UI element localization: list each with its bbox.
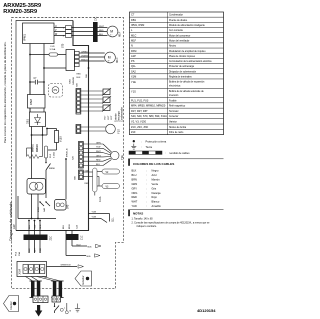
svg-text:RED: RED — [96, 160, 101, 162]
svg-text:MRM20: MRM20 — [37, 143, 39, 152]
svg-text:Z2C: Z2C — [50, 236, 53, 241]
power supply transformer — [27, 179, 46, 195]
svg-text:M1C: M1C — [115, 57, 119, 63]
svg-text:SA2: SA2 — [131, 69, 136, 73]
connector S20 — [73, 142, 84, 169]
wires X1M to indoor cable — [26, 277, 61, 282]
svg-text:electrónica: electrónica — [169, 85, 181, 88]
svg-text:Z3C: Z3C — [96, 16, 98, 21]
connector S70 pins — [62, 26, 72, 48]
wires leaving PCB bottom — [28, 220, 41, 253]
svg-text:BLK: BLK — [132, 169, 137, 173]
switch MR30 — [45, 158, 55, 179]
svg-text:Disipador de sobretensión: Disipador de sobretensión — [169, 70, 197, 73]
svg-text:Regleta de terminales: Regleta de terminales — [169, 76, 192, 79]
svg-text:BLK: BLK — [99, 34, 104, 36]
svg-text:V2, V3, V150: V2, V3, V150 — [131, 119, 147, 123]
svg-text:A1P: A1P — [12, 224, 16, 229]
svg-text:1. Tamaño: 140 x 80: 1. Tamaño: 140 x 80 — [132, 217, 154, 220]
svg-text:Y1S: Y1S — [117, 129, 121, 134]
supply switch — [54, 303, 72, 314]
legend table row lines — [130, 17, 224, 129]
thermistor R1T — [102, 88, 111, 120]
compressor wire labels — [81, 51, 89, 61]
pin labels U V W — [55, 26, 58, 36]
wire fan phase 1 — [72, 27, 108, 29]
svg-text:3.15A: 3.15A — [53, 152, 56, 158]
svg-text:Condensador: Condensador — [169, 14, 183, 17]
svg-text:M1F: M1F — [131, 38, 137, 42]
svg-text:WHT: WHT — [132, 200, 138, 204]
symbol key: earth — [131, 144, 152, 150]
junction on P leg — [29, 54, 31, 56]
svg-text:Filtro de ruido: Filtro de ruido — [169, 131, 184, 134]
wire PAM to DB1 — [29, 108, 31, 112]
svg-text:Negro: Negro — [152, 169, 160, 173]
svg-text:2. Consulte las especificacio: 2. Consulte las especificaciones de comp… — [132, 221, 211, 224]
wire fan phase 2 — [72, 31, 108, 33]
svg-text:C7: C7 — [131, 13, 135, 17]
connector S40 — [55, 200, 70, 211]
svg-text:GRN: GRN — [96, 142, 101, 144]
svg-text:Conector: Conector — [169, 115, 179, 118]
wire IPM1 P leg — [29, 44, 31, 113]
thermistor connector S90 — [76, 82, 81, 114]
resistor R30 zigzag — [27, 135, 43, 159]
wire IPM1 N leg — [43, 44, 45, 95]
fan motor M1F — [107, 26, 122, 37]
wire from N leg junction to relay box — [43, 67, 45, 69]
svg-text:Termistor: Termistor — [169, 110, 179, 113]
wires to Y1S — [81, 126, 106, 128]
svg-text:RED: RED — [77, 74, 82, 76]
wire U to fan connector — [54, 27, 66, 29]
svg-text:BLU: BLU — [63, 224, 65, 229]
svg-text:WHT: WHT — [96, 151, 101, 153]
junction dots below DB1 — [31, 134, 33, 136]
wire tag capsule vertical — [93, 168, 97, 192]
svg-text:R1T: R1T — [105, 115, 107, 120]
legend table frame — [130, 12, 224, 135]
svg-text:IPM1, IPM2: IPM1, IPM2 — [131, 23, 145, 27]
svg-text:W/BLK: W/BLK — [81, 59, 88, 61]
svg-text:M1F: M1F — [118, 31, 122, 37]
svg-text:Núcleo de ferrita: Núcleo de ferrita — [169, 126, 187, 129]
svg-text:Y1S: Y1S — [131, 89, 136, 93]
wire V150 down — [56, 143, 58, 151]
svg-text:MR30: MR30 — [49, 168, 56, 170]
svg-text:GRY: GRY — [132, 186, 138, 190]
svg-text:BLK: BLK — [77, 77, 82, 79]
svg-text:RED: RED — [99, 30, 104, 32]
svg-text:Placa de circuito impreso: Placa de circuito impreso — [169, 55, 196, 58]
wire W to fan connector — [54, 35, 66, 37]
svg-text:ORG: ORG — [132, 191, 138, 195]
Interior symbol — [4, 296, 19, 312]
wire fuse to compressor connector — [58, 54, 66, 56]
wire rails to PAM — [29, 82, 31, 95]
svg-text:PS: PS — [131, 59, 135, 63]
svg-text:YLW: YLW — [85, 170, 89, 172]
svg-text:V150: V150 — [59, 136, 62, 142]
wires S20 to Y1E — [83, 144, 111, 166]
svg-text:M1C: M1C — [131, 33, 137, 37]
svg-text:YLW: YLW — [132, 204, 138, 208]
notes section — [128, 210, 223, 228]
varistor V150 — [55, 129, 63, 143]
legend table texts — [131, 13, 212, 134]
svg-text:S40: S40 — [67, 204, 70, 209]
svg-text:DB1: DB1 — [26, 119, 29, 124]
svg-text:X2A: X2A — [76, 224, 79, 229]
wire V to fan connector — [54, 31, 66, 33]
compressor motor M1C — [105, 52, 120, 63]
svg-text:Amarillo: Amarillo — [152, 204, 162, 208]
svg-text:Marrón: Marrón — [152, 177, 161, 181]
svg-text:DB1: DB1 — [131, 18, 137, 22]
connector for Y1S — [76, 125, 81, 134]
thermistor sensor dashed box with PS — [49, 84, 63, 98]
svg-text:MRM10: MRM10 — [33, 143, 35, 152]
fuse rating label — [16, 251, 21, 256]
relay contact MR4 — [38, 201, 50, 212]
svg-text:Relé magnético: Relé magnético — [169, 105, 186, 108]
svg-text:BRN: BRN — [132, 177, 138, 181]
svg-text:Interior: Interior — [9, 301, 13, 309]
wire DB1 left output — [31, 127, 33, 179]
svg-text:Rojo: Rojo — [152, 195, 158, 199]
arrow wire 1 — [72, 244, 101, 248]
terminal block X1M — [17, 262, 47, 277]
svg-text:Azul: Azul — [152, 173, 157, 177]
svg-text:M: M — [110, 29, 113, 33]
svg-text:RED: RED — [40, 247, 42, 252]
svg-text:Neutro: Neutro — [169, 45, 177, 48]
supply wire labels above PCB edge — [63, 224, 78, 229]
svg-text:Varistor: Varistor — [169, 120, 177, 123]
symbol key: field wiring bar — [129, 151, 190, 155]
svg-text:Verde: Verde — [152, 182, 159, 186]
supply terminal strip — [52, 296, 61, 302]
title model numbers — [3, 3, 41, 15]
svg-text:MR30_B: MR30_B — [67, 148, 69, 157]
svg-text:Protector de sobrecarga: Protector de sobrecarga — [169, 65, 195, 68]
svg-text:WHT: WHT — [99, 26, 105, 28]
wires S80 — [83, 171, 92, 173]
reversing valve coil Y1S — [106, 124, 121, 134]
svg-text:FU1, FU2, FU3: FU1, FU2, FU3 — [131, 98, 149, 102]
supply cable bundle — [51, 281, 63, 298]
thermistor R2T — [102, 96, 111, 120]
bottom bus wire — [18, 218, 56, 220]
svg-text:X11A: X11A — [99, 196, 102, 202]
connector S80 — [75, 170, 84, 180]
svg-text:PAM: PAM — [131, 49, 136, 53]
indoor terminal strip 1 2 3 — [33, 296, 48, 303]
svg-text:Puente de diodos: Puente de diodos — [169, 19, 188, 22]
svg-text:YLW: YLW — [96, 147, 100, 149]
svg-text:Tierra: Tierra — [146, 145, 153, 149]
wire colour labels to X1M — [29, 247, 42, 253]
svg-text:Bobina de la válvula de expans: Bobina de la válvula de expansión — [169, 82, 205, 84]
compressor connector box — [66, 50, 79, 71]
svg-text:Naranja: Naranja — [152, 191, 162, 195]
svg-text:U/RED: U/RED — [81, 51, 88, 53]
svg-text:R1T, R2T, R3T: R1T, R2T, R3T — [131, 109, 148, 113]
svg-text:Blanco: Blanco — [152, 200, 160, 204]
svg-text:PS: PS — [54, 88, 58, 92]
svg-text:V/WHT: V/WHT — [81, 55, 89, 57]
svg-text:BRN: BRN — [69, 224, 71, 229]
thermistor descriptions — [115, 107, 124, 122]
svg-text:BLU: BLU — [77, 244, 81, 246]
svg-text:RED: RED — [132, 195, 138, 199]
svg-text:MRM10: MRM10 — [73, 76, 75, 84]
svg-text:R3T: R3T — [111, 115, 113, 120]
svg-text:inversión: inversión — [169, 94, 179, 97]
IPM1 module — [23, 23, 55, 44]
svg-text:Motor del ventilador: Motor del ventilador — [169, 39, 190, 42]
svg-text:4D120154: 4D120154 — [197, 308, 216, 313]
svg-text:RXM20-35R9: RXM20-35R9 — [3, 9, 37, 15]
svg-text:tendido de cables: tendido de cables — [170, 151, 191, 155]
svg-text:Protección a tierra: Protección a tierra — [146, 139, 167, 143]
svg-text:NOTAS: NOTAS — [133, 211, 143, 215]
svg-text:WHT: WHT — [35, 247, 37, 253]
svg-text:Gris: Gris — [152, 186, 157, 190]
svg-text:S70: S70 — [62, 43, 65, 48]
svg-text:PAM: PAM — [29, 98, 33, 105]
svg-text:N: N — [131, 44, 133, 48]
svg-text:Con corriente: Con corriente — [169, 29, 184, 32]
svg-text:RED: RED — [85, 183, 90, 185]
thermistor wires — [81, 91, 103, 111]
svg-text:Para conocer los requisitos de: Para conocer los requisitos de alimentac… — [3, 41, 7, 143]
expansion valve coil Y1E — [111, 151, 124, 160]
arrow wire 2 — [66, 254, 100, 258]
svg-text:indique lo contrario.: indique lo contrario. — [137, 225, 158, 228]
wire id labels above PCB edge — [29, 224, 42, 229]
svg-text:Q1L: Q1L — [131, 64, 136, 68]
svg-text:X1M: X1M — [131, 75, 136, 79]
svg-text:COLORES DE LOS CABLES: COLORES DE LOS CABLES — [133, 162, 174, 166]
ferrite core Z1C — [66, 234, 84, 240]
S20 wire labels — [96, 142, 101, 166]
wire tag capsule V3 — [97, 177, 120, 189]
junction at V150 branch — [46, 128, 48, 130]
ferrite core Z2C — [24, 235, 53, 241]
wire DB1 right output — [42, 127, 44, 136]
svg-text:Z1C: Z1C — [81, 235, 84, 240]
thermistor R3T — [102, 104, 113, 120]
svg-text:Y1E: Y1E — [131, 80, 136, 84]
svg-text:Z1F: Z1F — [131, 130, 136, 134]
svg-text:Exterior: Exterior — [81, 275, 85, 284]
wire colours section — [128, 159, 223, 208]
MR30_B node label — [65, 148, 68, 200]
PCB A1P outline — [16, 21, 73, 231]
svg-text:Modulación de amplitud de impu: Modulación de amplitud de impulso — [169, 50, 206, 53]
svg-text:Z1C, Z2C, Z3C: Z1C, Z2C, Z3C — [131, 125, 148, 129]
wire W to compressor — [79, 60, 105, 62]
wire V to compressor — [79, 56, 105, 58]
symbol key: protective earth — [133, 139, 167, 143]
diode bridge DB1 — [26, 112, 45, 127]
svg-text:Q1L: Q1L — [112, 217, 115, 222]
indoor cable bundle — [30, 281, 42, 298]
svg-text:BLK: BLK — [29, 248, 31, 253]
svg-text:A1P: A1P — [131, 54, 136, 58]
wire transformer to bus — [31, 194, 33, 219]
capacitor C7 bridging rails — [29, 78, 45, 85]
wire supply bundle to switch area — [66, 303, 68, 311]
svg-text:3.15A: 3.15A — [50, 48, 56, 51]
svg-text:MR4, MR30, MRM10, MRM20: MR4, MR30, MRM10, MRM20 — [131, 104, 166, 108]
wires PCB to supply arrows — [66, 231, 72, 256]
svg-text:GRN: GRN — [132, 182, 138, 186]
svg-text:BLU: BLU — [132, 173, 137, 177]
svg-text:Diagrama de cableado: Diagrama de cableado — [8, 202, 13, 241]
Exterior symbol — [75, 271, 92, 286]
wire to fuse FU1 — [30, 54, 49, 56]
svg-text:M: M — [108, 55, 111, 59]
svg-text:Módulo de alimentación intelig: Módulo de alimentación inteligente — [169, 24, 206, 27]
fuse FU2 3.15A — [44, 146, 55, 158]
outdoor unit dashed boundary — [12, 18, 124, 289]
fuse FU1 3.15A — [49, 46, 58, 56]
wire fan phase 3 — [72, 35, 108, 37]
svg-text:IPM1: IPM1 — [23, 34, 27, 41]
ferrite core Z3C — [93, 16, 98, 42]
svg-text:X1M: X1M — [18, 269, 22, 274]
ground symbol at supply — [75, 304, 80, 312]
svg-text:Motor del compresor: Motor del compresor — [169, 34, 191, 37]
svg-text:Fusible: Fusible — [169, 100, 177, 102]
arrow wire 3 earth — [47, 265, 84, 269]
arrow to indoor unit — [35, 305, 42, 317]
relay labels under compressor connector — [70, 73, 89, 84]
svg-text:S20, S40, S70, S80, S90, X11A: S20, S40, S70, S80, S90, X11A — [131, 114, 167, 118]
svg-text:Y1E: Y1E — [120, 155, 124, 160]
svg-text:ORG: ORG — [96, 155, 101, 157]
svg-text:Conmutación de la alimentación: Conmutación de la alimentación eléctrica — [169, 60, 212, 63]
svg-text:R2T: R2T — [108, 115, 110, 120]
PAM block — [28, 95, 46, 109]
wire tag capsule V2 — [97, 169, 120, 174]
wire across below DB1 — [32, 134, 48, 136]
svg-text:Bobina de la válvula solenoide: Bobina de la válvula solenoide de — [169, 91, 204, 93]
svg-text:MR4: MR4 — [38, 207, 40, 212]
fan wire colour labels — [99, 26, 105, 36]
svg-text:BLU: BLU — [96, 164, 101, 166]
svg-text:Condensador: Condensador — [121, 107, 124, 122]
overload protector Q1L wires — [89, 212, 115, 223]
wire U to compressor — [79, 52, 105, 54]
svg-text:GRN/YLW: GRN/YLW — [61, 265, 72, 267]
svg-text:20A: 20A — [18, 252, 21, 256]
bus junction dots — [31, 218, 33, 220]
